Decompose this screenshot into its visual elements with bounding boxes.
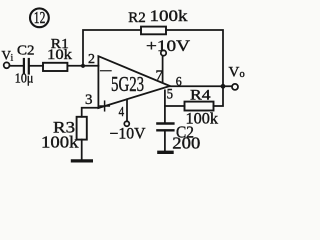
label Vo [229, 65, 245, 81]
label Vi [2, 47, 14, 62]
svg-text:R4: R4 [190, 87, 211, 103]
op-amp U1 5G23 triangle [98, 56, 169, 108]
wire R3 to ground [81, 140, 83, 161]
input terminal Vi [4, 62, 10, 68]
svg-text:i: i [11, 52, 14, 62]
wire pin5 node down to capacitor C2 (200) [164, 106, 166, 123]
svg-text:10μ: 10μ [15, 72, 34, 87]
svg-text:5G23: 5G23 [111, 73, 144, 96]
ground bar below R3 [72, 159, 91, 162]
output node junction dot [221, 84, 226, 89]
wire C2 (200) to ground [164, 130, 166, 151]
pin 7 wire from +10V terminal to op-amp top edge [162, 56, 164, 83]
svg-text:2: 2 [88, 52, 95, 67]
pin 6 output wire from apex to Vo [170, 85, 232, 87]
svg-text:R2: R2 [128, 10, 146, 26]
wire C2 to R1 [30, 65, 43, 67]
pin 4 stub wire [126, 99, 128, 121]
op-amp plus sign [100, 101, 109, 111]
svg-text:−10V: −10V [110, 125, 147, 142]
output terminal Vo [232, 84, 238, 90]
svg-text:100k: 100k [150, 8, 188, 25]
circled figure number 12 [30, 8, 49, 27]
wire R2 to right rail, down to output node [166, 30, 223, 86]
svg-text:10k: 10k [47, 47, 73, 63]
resistor R4 [185, 102, 214, 111]
svg-text:4: 4 [119, 105, 125, 120]
capacitor C2 (input, 10u) [24, 59, 29, 74]
node A junction dot [81, 64, 85, 68]
+10V supply terminal [161, 50, 166, 55]
svg-text:12: 12 [34, 9, 46, 28]
svg-text:o: o [240, 69, 245, 80]
svg-text:200: 200 [172, 134, 200, 153]
ground bar below C2 (200) [159, 151, 172, 154]
svg-text:6: 6 [176, 74, 182, 88]
resistor R2 [141, 27, 166, 35]
svg-text:3: 3 [85, 92, 93, 108]
wire Vi terminal to C2 [10, 65, 24, 67]
op-amp minus sign [101, 70, 111, 72]
pin 5 wire down from bottom edge [165, 90, 185, 106]
resistor R3 [77, 117, 87, 140]
svg-text:5: 5 [167, 87, 173, 103]
capacitor C2 (output, 200) [157, 124, 173, 131]
svg-text:V: V [229, 65, 240, 81]
-10V supply terminal [124, 121, 129, 126]
svg-text:100k: 100k [41, 132, 79, 151]
svg-text:C2: C2 [17, 44, 35, 59]
feedback wire riser from node A [83, 30, 141, 66]
pin 3 wire into op-amp [82, 108, 99, 117]
svg-text:+10V: +10V [146, 38, 191, 55]
svg-text:7: 7 [156, 68, 164, 83]
wire R1 to node A [67, 65, 98, 67]
wire right rail down to R4 right end [214, 86, 224, 106]
resistor R1 [43, 63, 67, 71]
